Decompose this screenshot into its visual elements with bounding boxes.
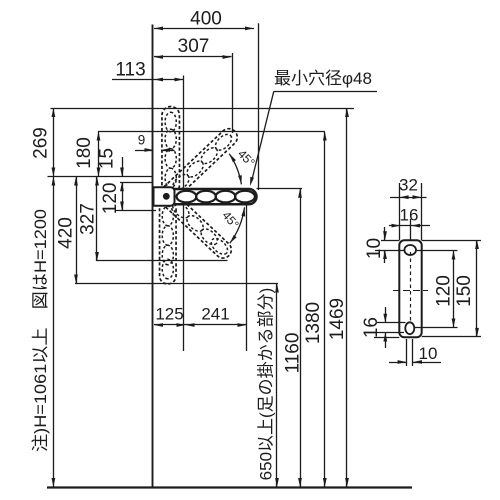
dashed arm folded down (160, 201, 177, 284)
dimension 400 (154, 28, 254, 30)
plate upper hole (404, 245, 416, 255)
dimension 650min (276, 284, 278, 488)
reference line y261 (327 bottom, 45-down tip) (96, 260, 228, 262)
plate ref upper hole left (375, 250, 405, 252)
pivot bolt (163, 193, 170, 200)
svg-text:120: 120 (100, 183, 121, 215)
svg-text:1469: 1469 (327, 298, 348, 340)
svg-text:45°: 45° (235, 147, 258, 170)
reference line y210.5 (120 bottom) (115, 210, 156, 212)
svg-text:16: 16 (361, 317, 382, 338)
svg-text:400: 400 (190, 9, 222, 30)
arm pole holes (177, 191, 197, 203)
reference line y283.5 (420 bottom / folded-down arm tip / 650 top) (75, 283, 278, 285)
svg-text:120: 120 (434, 275, 455, 307)
svg-text:32: 32 (399, 176, 418, 195)
svg-text:16: 16 (400, 206, 419, 225)
svg-text:650以上(足の掛かる部分): 650以上(足の掛かる部分) (257, 288, 276, 481)
svg-text:241: 241 (201, 305, 229, 324)
dashed arm lowered 45 deg (158, 188, 235, 262)
svg-text:113: 113 (115, 60, 145, 81)
svg-text:269: 269 (31, 127, 52, 159)
reference line y182.2 (120 top) (120, 182, 153, 184)
top reference line y108 (raised arm tip / 269 top / 1469 top) (51, 108, 355, 110)
dashed arm folded up (162, 107, 180, 195)
dimension 307 (154, 56, 232, 58)
dimension 9 (135, 150, 154, 152)
leader min hole dia phi48 (274, 91, 377, 93)
dimension 32 (390, 197, 427, 199)
extension line x246.5 (last pole hole center) (246, 203, 248, 351)
plate ref bottom left (374, 337, 399, 339)
plate ref top left (381, 240, 399, 242)
dimension 180 (98, 132, 100, 177)
reference line y131.5 (180 top / 1380 top / 45-up tip) (98, 131, 325, 133)
dimension 420 (76, 177, 78, 284)
wall bracket (154, 187, 175, 206)
dimension 120 left (122, 182, 124, 210)
dimension 16 lower-left (385, 307, 387, 323)
dimension 15 (122, 157, 124, 177)
dimension 1469 (346, 108, 348, 487)
svg-text:9: 9 (138, 133, 146, 148)
wall vertical line (152, 25, 154, 488)
dimension 10 upper-left (384, 227, 386, 240)
plate horizontal centerline (393, 290, 428, 292)
dimension 113 (112, 79, 184, 81)
arc 45 upper with arrows (229, 154, 241, 185)
svg-text:15: 15 (97, 148, 118, 169)
arc 45 lower with arrows (230, 207, 245, 243)
dimension 120 plate (453, 251, 455, 328)
arm bar (167, 189, 257, 204)
dimension 241 (186, 324, 247, 326)
plate ref lower hole left (377, 322, 406, 324)
plate lower hole (405, 322, 414, 334)
dimension 16 top (389, 225, 430, 227)
dimension 10 bottom (406, 339, 408, 366)
svg-text:最小穴径φ48: 最小穴径φ48 (274, 69, 372, 88)
dimension 1380 (324, 132, 326, 488)
dashed arm raised 45 deg (158, 125, 241, 205)
plate vertical centerline (410, 252, 412, 322)
floor line (47, 486, 412, 488)
plate ref bottom right (422, 336, 481, 338)
svg-text:1380: 1380 (303, 302, 324, 344)
dimension 1160 (300, 189, 302, 487)
dimension 125 (154, 324, 186, 326)
svg-text:注)H=1061以上 図はH=1200: 注)H=1061以上 図はH=1200 (31, 209, 50, 452)
plate ref lower slot bottom left (377, 332, 404, 334)
svg-text:307: 307 (178, 36, 210, 57)
svg-text:420: 420 (56, 217, 77, 249)
extension line x183.5 (first pole hole center) (183, 76, 185, 352)
svg-text:180: 180 (74, 137, 95, 169)
plate ref top right (422, 240, 481, 242)
extension line x233 (307 right / 45-up tip) (232, 53, 234, 133)
plate ref lower hole right (414, 327, 458, 329)
svg-text:1160: 1160 (283, 333, 304, 374)
extension line x258.5 (arm tip / 400 right) (258, 23, 260, 190)
reference line y176.5 (upper hole level: 269/180 bottom, H top) (48, 176, 154, 178)
dimension 150 plate (476, 240, 478, 337)
plate ref upper hole right (416, 250, 458, 252)
dimension H note (53, 177, 55, 488)
svg-text:10: 10 (364, 238, 385, 259)
svg-text:327: 327 (78, 203, 99, 235)
svg-text:125: 125 (155, 305, 183, 324)
svg-text:10: 10 (419, 344, 438, 363)
svg-text:150: 150 (454, 275, 475, 307)
dimension 269 (53, 108, 55, 177)
dimension 327 (96, 177, 98, 262)
plate outline (399, 240, 421, 337)
reference line y188.7 (arm top extension / 1160 top) (257, 188, 303, 190)
